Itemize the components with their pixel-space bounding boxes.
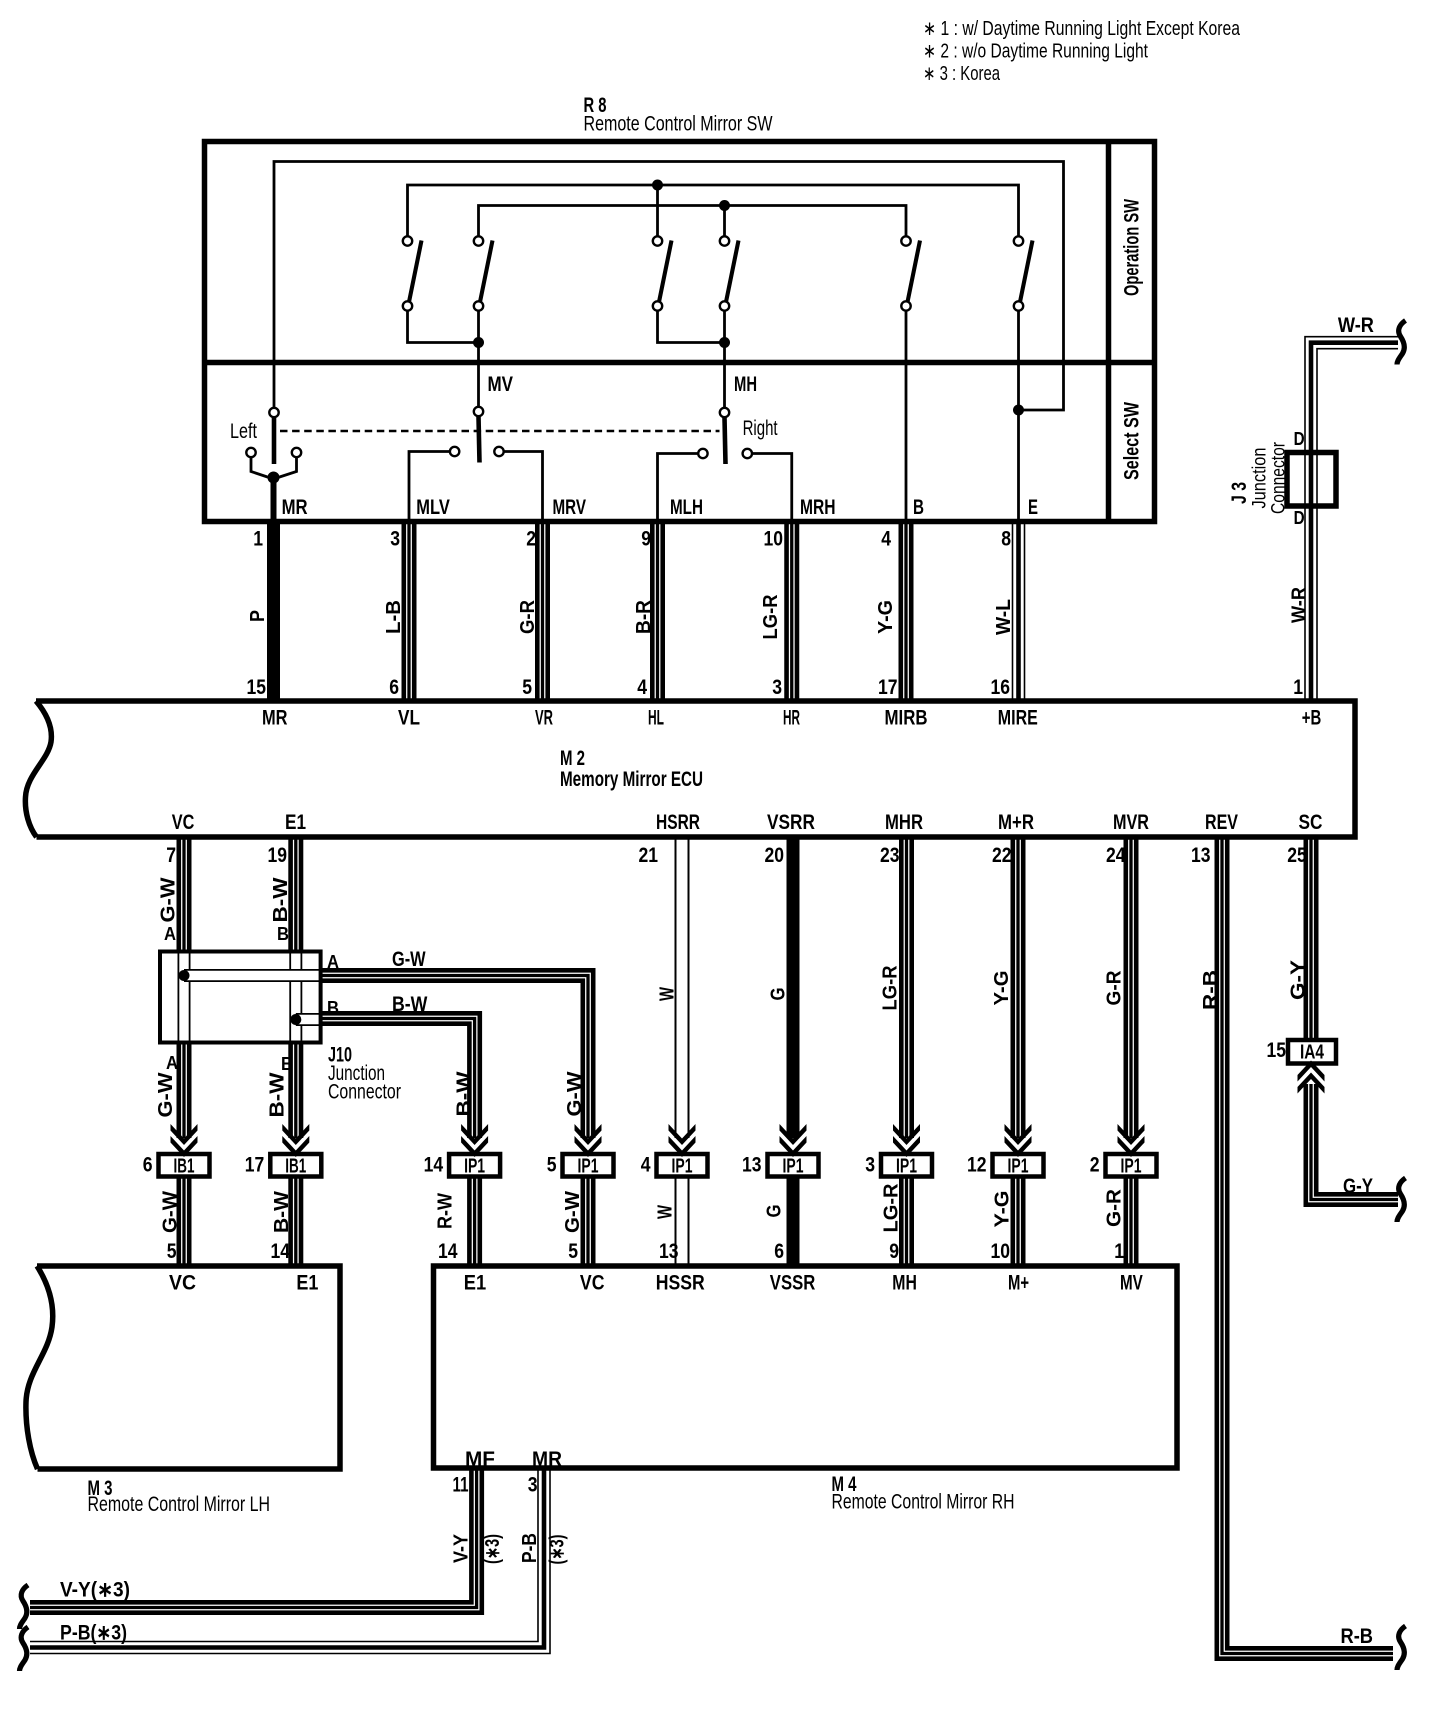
operation SW3 bottom terminal	[653, 301, 662, 310]
svg-text:VSRR: VSRR	[767, 811, 815, 834]
svg-text:R-W: R-W	[435, 1193, 457, 1229]
arrow into IP1 pin 14	[461, 1124, 488, 1157]
svg-text:Select SW: Select SW	[1121, 402, 1144, 480]
arrow into IA4 (upward)	[1298, 1061, 1325, 1094]
svg-text:IP1: IP1	[783, 1156, 804, 1178]
svg-text:MR: MR	[532, 1448, 562, 1471]
svg-text:B-W: B-W	[454, 1071, 476, 1116]
svg-text:G-Y: G-Y	[1288, 959, 1310, 1000]
select SW blade MV	[479, 417, 480, 463]
svg-text:G-R: G-R	[1104, 970, 1126, 1006]
svg-text:P: P	[247, 610, 269, 622]
wire M2 SC pin25 to IA4, G-Y	[1304, 839, 1319, 1040]
svg-text:G-W: G-W	[155, 1072, 177, 1117]
connector IA4 (pin 15)	[1288, 1040, 1336, 1064]
svg-text:E1: E1	[296, 1272, 318, 1295]
svg-text:25: 25	[1287, 844, 1307, 867]
svg-text:MH: MH	[892, 1272, 917, 1295]
connector IP1 (pin 4)	[657, 1154, 708, 1177]
svg-text:M+: M+	[1008, 1272, 1029, 1295]
junction sw1-sw2 / MV column	[473, 337, 484, 348]
wire IP1 pin13 to M4 VSSR pin6, G	[787, 1177, 800, 1266]
svg-text:G-W: G-W	[392, 948, 426, 971]
svg-text:IP1: IP1	[1121, 1156, 1142, 1178]
wire VC through J10	[178, 951, 191, 1043]
svg-text:10: 10	[991, 1240, 1011, 1263]
connector IP1 (pin 13)	[768, 1154, 819, 1177]
svg-text:5: 5	[568, 1240, 578, 1263]
operation SW1 top terminal	[403, 236, 412, 245]
svg-text:HL: HL	[648, 707, 664, 730]
operation SW5 blade	[908, 241, 921, 303]
svg-text:IA4: IA4	[1300, 1042, 1325, 1064]
svg-text:22: 22	[992, 844, 1012, 867]
operation SW5 bottom terminal	[901, 301, 910, 310]
svg-text:MV: MV	[488, 373, 514, 396]
svg-text:4: 4	[881, 528, 891, 551]
break mark W-R top right	[1397, 321, 1406, 365]
svg-text:17: 17	[878, 676, 898, 699]
svg-text:B-W: B-W	[267, 1072, 289, 1117]
arrow into IP1 pin 2	[1118, 1124, 1145, 1157]
svg-text:MR: MR	[282, 496, 308, 519]
svg-text:VC: VC	[580, 1272, 605, 1295]
svg-text:24: 24	[1106, 844, 1126, 867]
svg-text:B: B	[913, 496, 924, 519]
svg-text:MHR: MHR	[885, 811, 923, 834]
svg-text:∗ 3 : Korea: ∗ 3 : Korea	[923, 63, 1001, 85]
operation SW2 top terminal	[474, 236, 483, 245]
svg-text:G-R: G-R	[1104, 1188, 1126, 1227]
wire MV left contact to pin MLV	[409, 452, 450, 524]
svg-text:10: 10	[764, 528, 784, 551]
svg-text:MR: MR	[262, 707, 288, 730]
wire M2 M+R pin22 down, Y-G	[1011, 839, 1026, 1138]
svg-text:15: 15	[1267, 1039, 1287, 1062]
svg-text:6: 6	[143, 1154, 153, 1177]
arrow into IP1 pin 12	[1005, 1124, 1032, 1157]
wire IA4 to break, G-Y	[1311, 1084, 1398, 1200]
wire VC from J10 to IB1 arrow, G-W	[177, 1041, 192, 1138]
svg-text:MF: MF	[465, 1448, 495, 1471]
connector IP1 (pin 14)	[449, 1154, 500, 1177]
svg-text:VSSR: VSSR	[770, 1272, 816, 1295]
wire sw3 riser to bus A	[656, 185, 659, 236]
svg-text:20: 20	[765, 844, 785, 867]
wire IB1 pin6 to M3 VC pin5, G-W	[177, 1177, 192, 1266]
wire IP1 pin4 to M4 HSSR pin13, W	[675, 1177, 690, 1266]
svg-text:B-W: B-W	[392, 993, 428, 1016]
wire J10 A to IP1 pin5, G-W	[319, 976, 588, 1139]
operation SW5 top terminal	[901, 236, 910, 245]
junction J10 A-row on VC wire	[179, 970, 190, 981]
wire M4 MF pin11 to break, V-Y(*3)	[30, 1470, 477, 1608]
svg-text:A: A	[166, 1053, 178, 1073]
junction Left contacts to MR pin	[268, 472, 280, 484]
wire sw6 bottom to pin E	[1017, 311, 1020, 524]
wire IP1 pin12 to M4 M+ pin10, Y-G	[1011, 1177, 1026, 1266]
wire M2 MHR pin23 down, LG-R	[899, 839, 914, 1138]
arrow into IP1 pin 3	[893, 1124, 920, 1157]
wire IP1 pin14 to M4 E1 pin14, R-W	[467, 1177, 482, 1266]
svg-text:9: 9	[889, 1240, 899, 1263]
wire bus B (operation SW tops sw2-sw4-sw5)	[479, 206, 907, 237]
operation SW2 bottom terminal	[474, 301, 483, 310]
wire MR pin1 to M2 pin15, P	[267, 524, 280, 699]
svg-text:MVR: MVR	[1113, 811, 1149, 834]
wire MV right contact to pin MRV	[504, 452, 543, 524]
operation SW6 top terminal	[1014, 236, 1023, 245]
svg-text:B: B	[277, 924, 289, 944]
svg-text:2: 2	[526, 528, 536, 551]
svg-text:1: 1	[1293, 676, 1303, 699]
svg-text:Connector: Connector	[1269, 441, 1290, 514]
svg-text:Right: Right	[743, 417, 778, 440]
svg-text:Memory Mirror ECU: Memory Mirror ECU	[560, 768, 703, 791]
operation SW6 bottom terminal	[1014, 301, 1023, 310]
svg-text:13: 13	[659, 1240, 679, 1263]
connector IP1 (pin 2)	[1106, 1154, 1157, 1177]
svg-text:G-R: G-R	[517, 599, 539, 634]
svg-text:A: A	[164, 924, 176, 944]
wire M2 VSRR pin20 down, G	[787, 839, 800, 1138]
svg-text:Remote Control Mirror RH: Remote Control Mirror RH	[832, 1491, 1015, 1514]
svg-text:Remote Control Mirror LH: Remote Control Mirror LH	[88, 1493, 271, 1516]
junction bus B / sw4	[719, 200, 730, 211]
junction E wire / MR blade loop	[1013, 405, 1024, 416]
svg-text:A: A	[327, 952, 339, 972]
wire Left contact 2 to junction	[278, 457, 297, 478]
svg-text:W-R: W-R	[1289, 587, 1311, 623]
wire M2 MVR pin24 down, G-R	[1124, 839, 1139, 1138]
svg-text:MV: MV	[1120, 1272, 1143, 1295]
break mark G-Y right	[1397, 1178, 1406, 1222]
svg-text:B: B	[327, 998, 339, 1018]
wire sw4 riser to bus B	[723, 206, 726, 237]
svg-text:IP1: IP1	[1008, 1156, 1029, 1178]
wire IP1 pin3 to M4 MH pin9, LG-R	[899, 1177, 914, 1266]
svg-text:4: 4	[637, 676, 647, 699]
svg-text:4: 4	[641, 1154, 651, 1177]
svg-text:B-W: B-W	[270, 877, 292, 922]
svg-text:HR: HR	[783, 707, 800, 730]
svg-text:1: 1	[253, 528, 263, 551]
svg-text:G: G	[768, 988, 790, 1001]
svg-text:V-Y(∗3): V-Y(∗3)	[60, 1579, 130, 1602]
svg-text:6: 6	[389, 676, 399, 699]
svg-text:(∗3): (∗3)	[482, 1534, 504, 1564]
wire Left contact 1 to junction	[251, 457, 269, 478]
wire MRV pin2 to M2 VR pin5, G-R	[535, 524, 550, 699]
switch box R8 Remote Control Mirror SW	[205, 142, 1155, 522]
svg-text:(∗3): (∗3)	[547, 1535, 569, 1565]
svg-text:G-Y: G-Y	[1343, 1175, 1373, 1198]
select SW blade MR	[272, 418, 277, 465]
svg-text:23: 23	[880, 844, 900, 867]
wire MR select blade to E net loop	[274, 162, 1064, 411]
svg-text:Left: Left	[230, 420, 257, 443]
arrow into IP1 pin 4	[669, 1124, 696, 1157]
select SW MH left contact	[698, 449, 707, 458]
svg-text:1: 1	[1114, 1240, 1124, 1263]
svg-text:21: 21	[639, 844, 659, 867]
svg-text:LG-R: LG-R	[760, 594, 782, 639]
wire IP1 pin5 to M4 VC pin5, G-W	[581, 1177, 596, 1266]
svg-text:7: 7	[166, 844, 176, 867]
svg-text:R-B: R-B	[1341, 1625, 1374, 1648]
wire sw3 bottom to MH column	[658, 311, 725, 343]
svg-text:E1: E1	[464, 1272, 487, 1295]
svg-text:J 3: J 3	[1228, 482, 1251, 504]
svg-text:E1: E1	[285, 811, 306, 834]
svg-text:M+R: M+R	[998, 811, 1034, 834]
svg-text:Y-G: Y-G	[875, 600, 897, 634]
select SW MH blade terminal	[720, 408, 729, 417]
wire MLH pin9 to M2 HL pin4, B-R	[650, 524, 665, 699]
svg-text:R-B: R-B	[1200, 970, 1222, 1010]
svg-text:W: W	[655, 1205, 677, 1219]
svg-text:19: 19	[268, 844, 288, 867]
svg-text:MIRE: MIRE	[998, 707, 1038, 730]
wire IB1 pin17 to M3 E1 pin14, B-W	[288, 1177, 303, 1266]
svg-text:D: D	[1294, 429, 1305, 449]
wire W-R from break via J3 to M2 +B pin1	[1311, 343, 1398, 699]
svg-text:IP1: IP1	[578, 1156, 599, 1178]
wire E1 through J10	[289, 951, 302, 1043]
svg-text:V-Y: V-Y	[451, 1533, 473, 1563]
svg-text:HSSR: HSSR	[656, 1272, 705, 1295]
svg-text:13: 13	[742, 1154, 762, 1177]
svg-text:3: 3	[772, 676, 782, 699]
svg-text:W: W	[657, 987, 679, 1001]
operation SW2 blade	[480, 241, 493, 303]
select SW MV left contact	[450, 447, 459, 456]
select SW MV blade terminal	[474, 407, 483, 416]
svg-text:14: 14	[424, 1154, 444, 1177]
svg-text:P-B(∗3): P-B(∗3)	[60, 1622, 127, 1645]
operation SW3 top terminal	[653, 236, 662, 245]
select SW MR blade terminal	[269, 408, 278, 417]
operation SW1 bottom terminal	[403, 301, 412, 310]
svg-text:2: 2	[1090, 1154, 1100, 1177]
svg-text:14: 14	[438, 1240, 458, 1263]
svg-text:B-R: B-R	[633, 599, 655, 634]
svg-text:Y-G: Y-G	[991, 971, 1013, 1006]
svg-text:9: 9	[641, 528, 651, 551]
junction connector box J10	[160, 952, 321, 1043]
svg-text:13: 13	[1191, 844, 1211, 867]
operation SW4 blade	[726, 241, 739, 303]
svg-text:G-W: G-W	[160, 1191, 182, 1233]
break mark P-B bottom left	[20, 1627, 29, 1671]
svg-text:VC: VC	[169, 1272, 196, 1295]
svg-text:W-R: W-R	[1338, 314, 1374, 337]
svg-text:D: D	[1294, 508, 1305, 528]
wire MRH pin10 to M2 HR pin3, LG-R	[784, 524, 799, 699]
svg-text:G-W: G-W	[564, 1071, 586, 1116]
connector IB1 (pin 6)	[159, 1154, 210, 1177]
wire MR junction to pin MR	[271, 478, 277, 524]
svg-text:IP1: IP1	[464, 1156, 485, 1178]
connector IB1 (pin 17)	[270, 1154, 321, 1177]
connector IP1 (pin 5)	[563, 1154, 614, 1177]
svg-text:Operation SW: Operation SW	[1121, 199, 1144, 296]
svg-text:5: 5	[547, 1154, 557, 1177]
wire M2 HSRR pin21 down, W	[675, 839, 690, 1138]
junction sw3-sw4 / MH column	[719, 337, 730, 348]
operation SW4 top terminal	[720, 236, 729, 245]
arrow into IP1 pin 5	[575, 1124, 602, 1157]
wire M4 MR pin3 to break, P-B(*3)	[30, 1470, 544, 1648]
mirror box M4 Remote Control Mirror RH	[434, 1266, 1178, 1468]
svg-text:IP1: IP1	[672, 1156, 693, 1178]
break mark V-Y bottom left	[20, 1585, 29, 1629]
wire sw4 bottom to MH select blade	[723, 311, 726, 407]
svg-text:P-B: P-B	[519, 1533, 541, 1563]
svg-text:3: 3	[528, 1474, 538, 1497]
ECU box M2 Memory Mirror ECU	[25, 701, 1355, 837]
svg-text:REV: REV	[1205, 811, 1238, 834]
wire J10 B-row internal	[296, 1013, 319, 1026]
svg-text:IB1: IB1	[174, 1156, 195, 1178]
svg-text:W-L: W-L	[993, 599, 1015, 635]
wire MH right contact to pin MRH	[752, 454, 792, 524]
svg-text:MH: MH	[734, 373, 757, 396]
svg-text:Junction: Junction	[1250, 448, 1271, 509]
operation SW4 bottom terminal	[720, 301, 729, 310]
connector IP1 (pin 3)	[881, 1154, 932, 1177]
operation SW6 blade	[1020, 241, 1033, 303]
wire M2 REV pin13 to break, R-B	[1222, 839, 1393, 1654]
wire sw2 bottom to MV select blade	[477, 311, 480, 407]
svg-text:HSRR: HSRR	[656, 811, 700, 834]
svg-text:B-W: B-W	[271, 1191, 293, 1233]
svg-text:+B: +B	[1302, 707, 1322, 730]
svg-text:15: 15	[247, 676, 267, 699]
wire MLV pin3 to M2 VL pin6, L-B	[402, 524, 417, 699]
operation SW1 blade	[409, 241, 422, 303]
svg-text:16: 16	[991, 676, 1011, 699]
svg-text:5: 5	[522, 676, 532, 699]
arrow into IB1 pin 17	[282, 1124, 309, 1157]
svg-text:8: 8	[1001, 528, 1011, 551]
svg-text:6: 6	[774, 1240, 784, 1263]
mirror box M3 Remote Control Mirror LH	[26, 1266, 340, 1469]
select SW MH right contact	[743, 449, 752, 458]
svg-text:5: 5	[167, 1240, 177, 1263]
svg-text:LG-R: LG-R	[881, 1183, 903, 1233]
wire B pin4 to M2 MIRB pin17, Y-G	[899, 524, 914, 699]
wire bus A (operation SW tops sw1-sw3-sw6)	[408, 185, 1019, 236]
svg-text:17: 17	[245, 1154, 265, 1177]
svg-text:MRH: MRH	[800, 496, 836, 519]
break mark R-B bottom right	[1397, 1626, 1406, 1670]
svg-text:Y-G: Y-G	[992, 1191, 1014, 1228]
operation SW3 blade	[659, 241, 672, 303]
dashed mechanical coupling line	[280, 430, 720, 433]
svg-text:∗ 2 : w/o Daytime Running Ligh: ∗ 2 : w/o Daytime Running Light	[923, 41, 1148, 63]
svg-text:12: 12	[967, 1154, 987, 1177]
wire MH left contact to pin MLH	[658, 454, 699, 524]
svg-text:∗ 1 : w/ Daytime Running Light: ∗ 1 : w/ Daytime Running Light Except Ko…	[923, 18, 1241, 40]
svg-text:G-W: G-W	[158, 877, 180, 922]
svg-text:VL: VL	[398, 707, 420, 730]
svg-text:IP1: IP1	[896, 1156, 917, 1178]
junction J10 B-row on E1 wire	[290, 1014, 301, 1025]
svg-text:G: G	[764, 1205, 786, 1218]
wire J10 A-row internal	[184, 969, 319, 982]
svg-text:Connector: Connector	[328, 1081, 401, 1104]
svg-text:LG-R: LG-R	[880, 965, 902, 1010]
svg-text:VC: VC	[172, 811, 195, 834]
svg-text:MIRB: MIRB	[885, 707, 928, 730]
select SW blade MH	[725, 418, 726, 465]
wire sw5 bottom to pin B	[905, 311, 908, 524]
select SW Left contact 2	[292, 448, 301, 457]
svg-text:MRV: MRV	[553, 496, 587, 519]
junction bus A / sw3	[652, 180, 663, 191]
wire E1 from J10 to IB1 arrow, B-W	[288, 1041, 303, 1138]
svg-text:3: 3	[865, 1154, 875, 1177]
svg-text:3: 3	[390, 528, 400, 551]
svg-text:MLH: MLH	[670, 496, 703, 519]
junction connector box J3	[1287, 453, 1336, 507]
arrow into IP1 pin 13	[780, 1124, 807, 1157]
wire M2 E1 pin19 down, B-W	[288, 839, 303, 953]
svg-text:Remote Control Mirror SW: Remote Control Mirror SW	[584, 113, 773, 136]
svg-text:11: 11	[453, 1474, 469, 1497]
wire sw1 bottom to MV column	[408, 311, 479, 343]
svg-text:SC: SC	[1299, 811, 1323, 834]
svg-text:L-B: L-B	[383, 600, 405, 634]
svg-text:14: 14	[271, 1240, 291, 1263]
arrow into IB1 pin 6	[171, 1124, 198, 1157]
wire E pin8 to M2 MIRE pin16, W-L	[1012, 524, 1026, 699]
wire J10 B to IP1 pin14, B-W	[319, 1019, 475, 1139]
svg-text:MLV: MLV	[416, 496, 450, 519]
wire IP1 pin2 to M4 MV pin1, G-R	[1124, 1177, 1139, 1266]
svg-text:VR: VR	[535, 707, 553, 730]
svg-text:G-W: G-W	[562, 1191, 584, 1233]
svg-text:IB1: IB1	[285, 1156, 306, 1178]
svg-text:E: E	[1028, 496, 1038, 519]
svg-text:M 2: M 2	[560, 747, 585, 770]
svg-text:B: B	[281, 1054, 293, 1074]
wire M2 VC pin7 down, G-W	[177, 839, 192, 953]
select SW MV right contact	[494, 447, 503, 456]
select SW Left contact 1	[246, 448, 255, 457]
connector IP1 (pin 12)	[993, 1154, 1044, 1177]
